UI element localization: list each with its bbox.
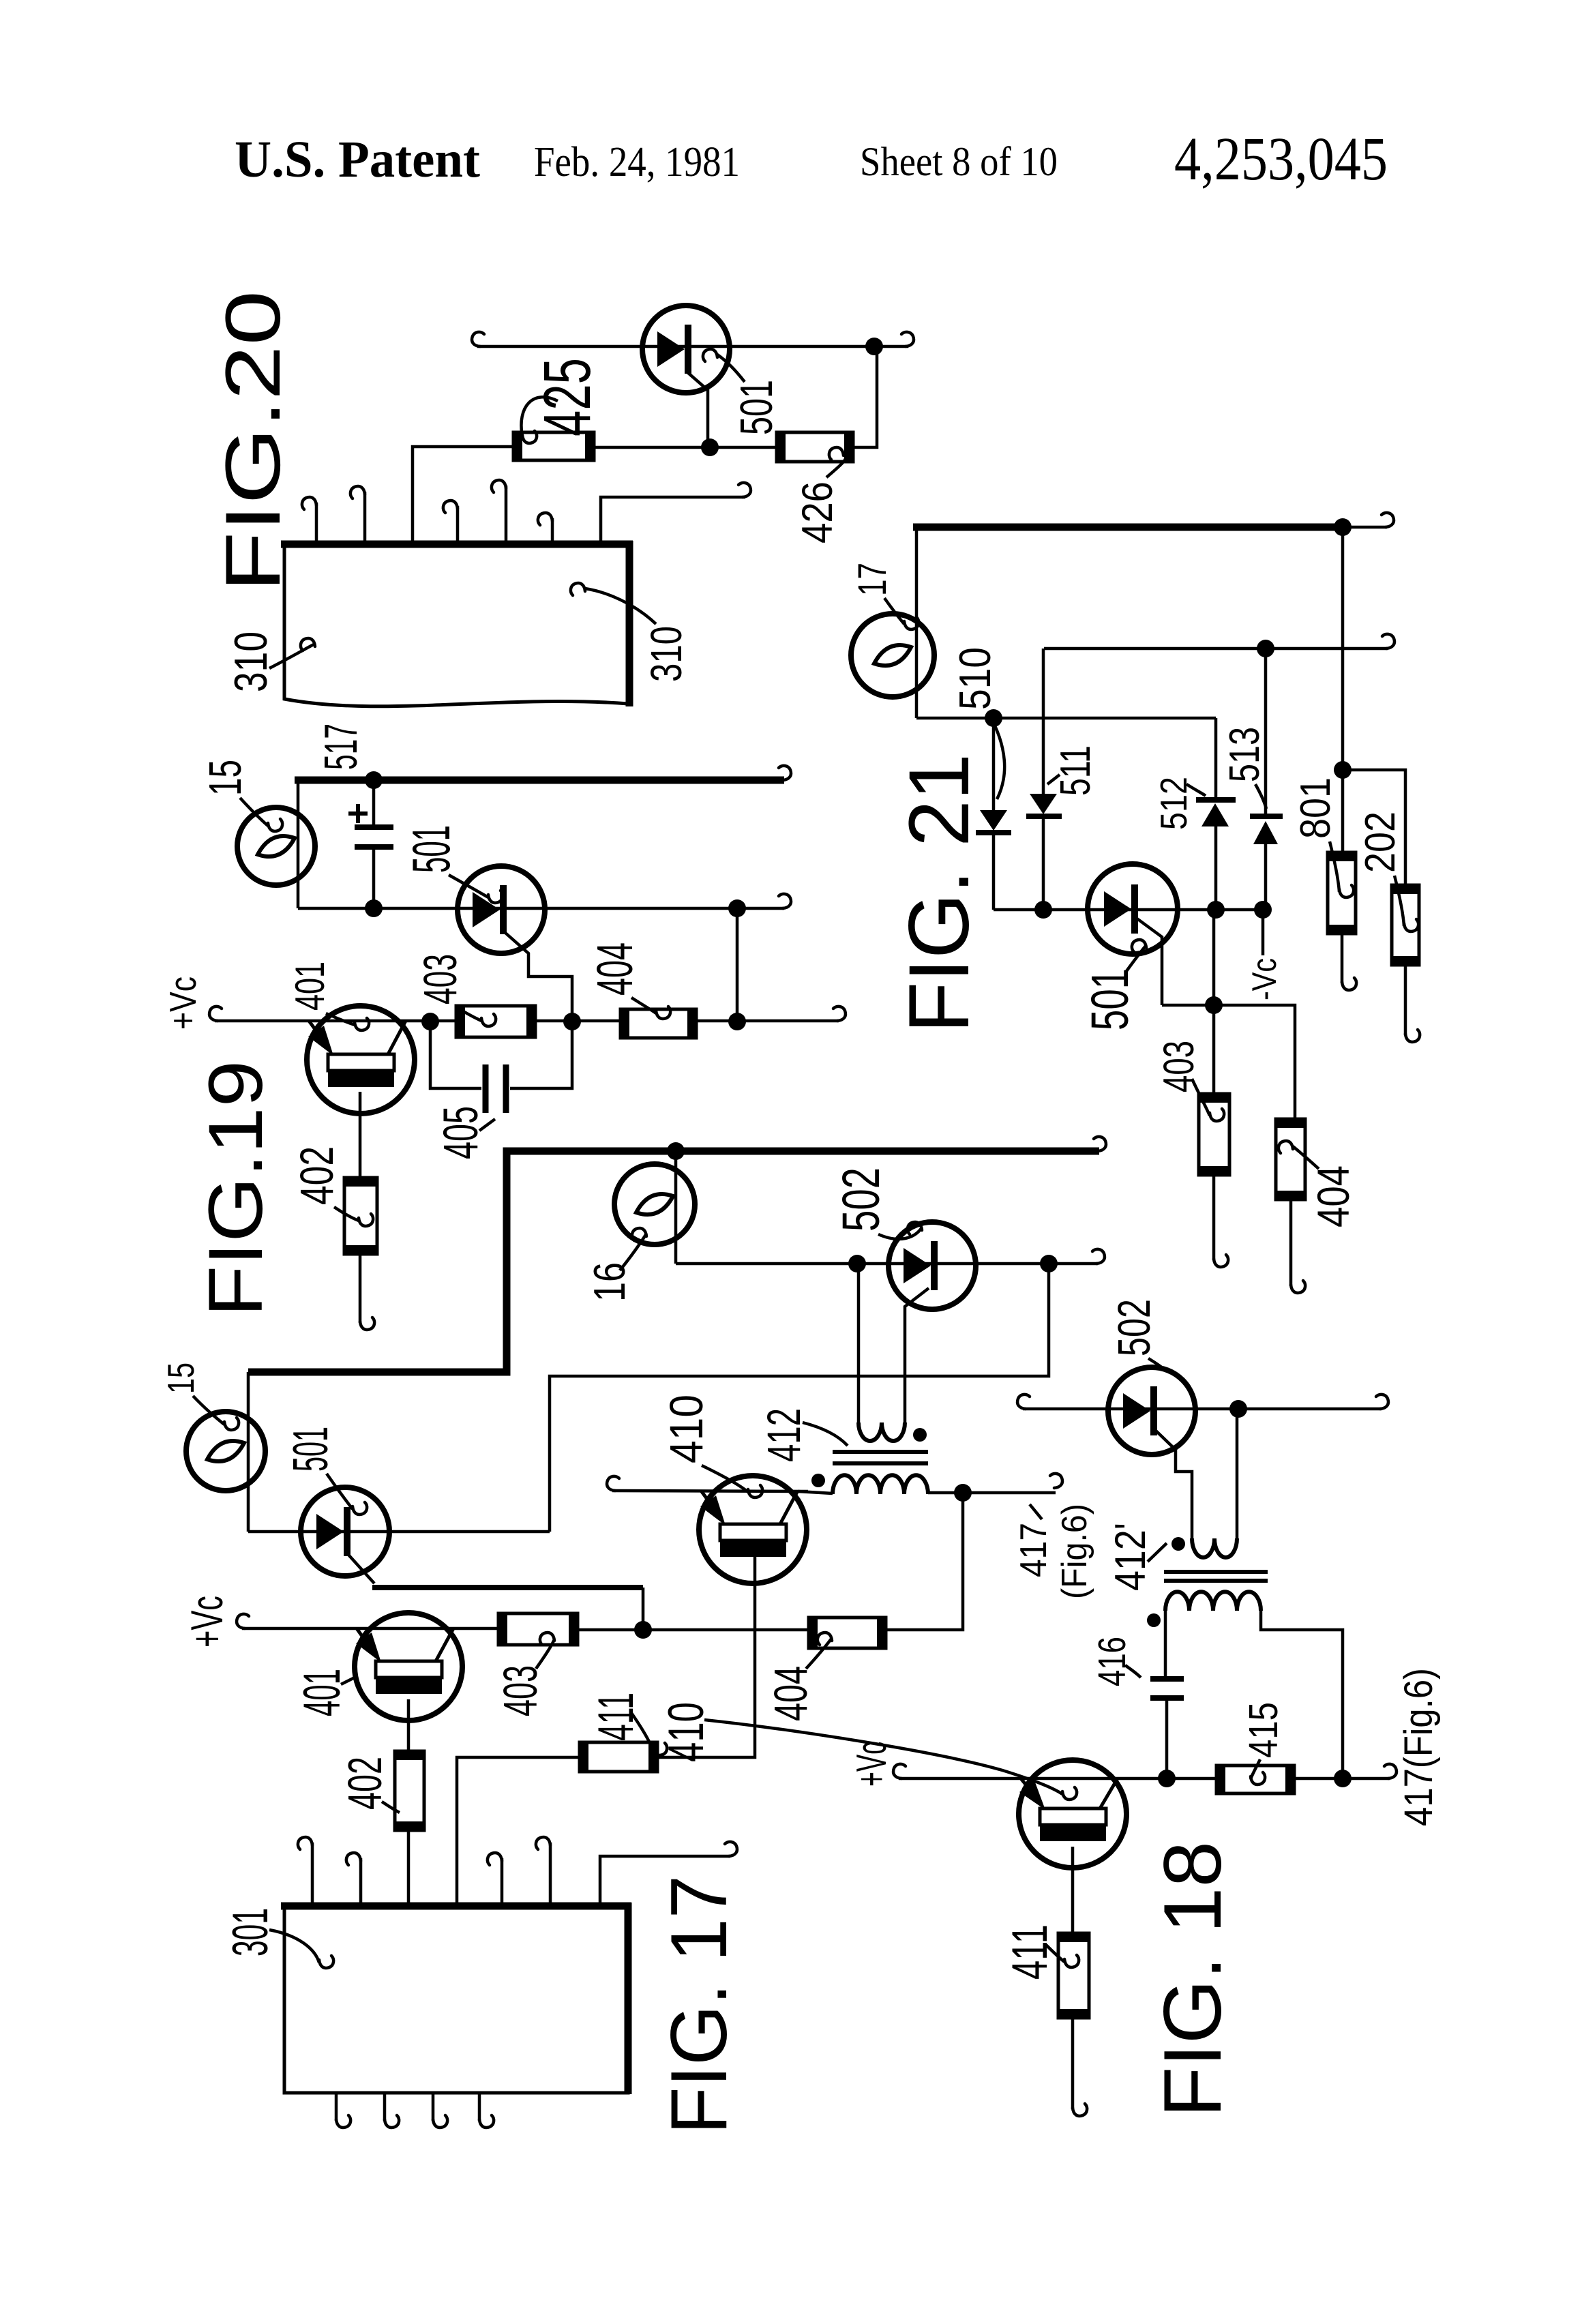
resistor 426 xyxy=(777,432,853,462)
svg-text:15: 15 xyxy=(200,760,251,796)
leader for 411 (FIG.18) xyxy=(1046,1945,1064,1962)
leader for 801 xyxy=(1330,841,1339,892)
capacitor 517 leads xyxy=(372,780,376,827)
pin 6 of 310 xyxy=(551,518,554,543)
pin B of 301 xyxy=(359,1858,363,1906)
thick bus (FIG.17) xyxy=(248,1151,1099,1372)
gate of 501 (FIG.21) xyxy=(1136,918,1162,1005)
transistor 401 (FIG.17) xyxy=(355,1613,462,1720)
emitter terminal wire of 410 (FIG.17) xyxy=(612,1491,808,1491)
main cathode rail (FIG.21) xyxy=(994,908,1264,912)
capacitor 416 bottom lead xyxy=(1165,1698,1169,1778)
thyristor 501 (FIG.21) xyxy=(1088,864,1178,954)
svg-text:-Vc: -Vc xyxy=(1245,958,1283,1000)
lamp 16 vertical wire xyxy=(674,1151,678,1264)
transistor 401 lead to 402 (FIG.17) xyxy=(407,1699,411,1751)
bottom pin 4 of 301 xyxy=(478,2094,481,2121)
svg-text:412': 412' xyxy=(1107,1523,1154,1591)
leader for 404 (FIG.21) xyxy=(1293,1146,1319,1169)
pin 2 of 310 xyxy=(363,492,367,543)
transistor 401 lead to 402 (FIG.19) xyxy=(359,1092,362,1178)
svg-text:301: 301 xyxy=(223,1908,278,1956)
transformer 412 secondary winding xyxy=(833,1475,928,1494)
junction dot 403 right / gate (FIG.19) xyxy=(563,1013,581,1030)
junction dot lamp 16 tap xyxy=(667,1142,685,1160)
wire below 801 xyxy=(1341,934,1344,983)
+Vc rail / 415 rail (FIG.18) xyxy=(899,1777,1217,1781)
junction dot 416 bottom xyxy=(1158,1770,1176,1787)
pin 7 of 310 (wire with terminal) xyxy=(601,497,745,543)
junction dot 517 top xyxy=(365,771,383,789)
leader for 513 xyxy=(1255,784,1266,809)
leader for 501 (FIG.19) xyxy=(449,875,488,897)
svg-text:412: 412 xyxy=(758,1408,810,1462)
svg-text:FIG. 17: FIG. 17 xyxy=(654,1875,743,2134)
gate wire to 404 (FIG.21) xyxy=(1162,1005,1295,1119)
svg-text:401: 401 xyxy=(293,1669,351,1716)
diode rail upper (FIG.21) xyxy=(916,717,1216,720)
leader for 502 (FIG.17) xyxy=(878,1227,922,1239)
junction dot 403 left (FIG.19) xyxy=(421,1013,439,1030)
leader for 512 xyxy=(1186,784,1206,796)
polarity dot secondary 412-prime xyxy=(1147,1613,1161,1627)
wire 426 right to top rail xyxy=(853,346,877,447)
svg-text:410: 410 xyxy=(659,1702,714,1762)
diode 511 xyxy=(1030,794,1057,814)
svg-text:513: 513 xyxy=(1221,727,1268,782)
secondary left lead to capacitor 416 xyxy=(1164,1611,1167,1679)
junction dot 404 right (FIG.19) xyxy=(728,1013,746,1030)
capacitor 405 plates xyxy=(483,1064,489,1113)
svg-text:501: 501 xyxy=(731,380,782,435)
resistor 404 (FIG.19) xyxy=(621,1009,696,1038)
leader for 501 (FIG.17) xyxy=(327,1474,353,1509)
svg-text:417: 417 xyxy=(1012,1523,1054,1577)
pin G of 301 (wire with terminal) xyxy=(600,1856,730,1906)
svg-text:501: 501 xyxy=(401,825,461,873)
leader for 411 (FIG.17) xyxy=(631,1713,653,1750)
leader for 402 (FIG.19) xyxy=(334,1207,359,1221)
resistor 801 xyxy=(1328,852,1356,934)
resistor 402 (FIG.17) xyxy=(395,1751,424,1830)
capacitor 416 plates xyxy=(1150,1676,1184,1682)
thyristor 502 (FIG.17) xyxy=(889,1222,976,1309)
thick top rail (FIG.21) xyxy=(913,524,1343,531)
wire below 411 (FIG.18) xyxy=(1071,2018,1075,2109)
junction dot 513 tap xyxy=(1257,640,1274,657)
primary right lead of 412-prime xyxy=(1236,1409,1239,1538)
thyristor 501 (FIG.19) xyxy=(458,866,545,953)
polarity dot primary 412 xyxy=(913,1428,927,1442)
svg-text:410: 410 xyxy=(660,1395,713,1463)
vertical 801 branch xyxy=(1341,527,1345,852)
lamp 17 vertical wire xyxy=(915,527,919,718)
svg-text:+Vc: +Vc xyxy=(181,1596,232,1648)
thyristor 502 (FIG.18) xyxy=(1108,1367,1195,1455)
capacitor 517 plates xyxy=(355,824,393,830)
leader for 15 (FIG.19) xyxy=(240,798,268,826)
leader for 426 xyxy=(826,454,846,477)
resistor 415 xyxy=(1217,1766,1294,1793)
svg-text:Feb. 24, 1981: Feb. 24, 1981 xyxy=(534,139,740,185)
pin 1 of 310 xyxy=(315,503,318,543)
svg-text:502: 502 xyxy=(1109,1299,1160,1356)
wire below 402 (FIG.19) xyxy=(359,1254,362,1323)
thyristor 501 (FIG.20) xyxy=(642,306,730,393)
wire 404 to transformer (FIG.17) xyxy=(886,1493,963,1630)
transformer 412-prime core xyxy=(1164,1570,1268,1574)
leader for 416 xyxy=(1125,1665,1141,1678)
lamp 15 (FIG.19) xyxy=(237,807,315,885)
svg-text:426: 426 xyxy=(794,481,841,543)
anode rail of 502 (FIG.18) xyxy=(1023,1407,1382,1411)
IC box 310 (FIG.20) xyxy=(284,546,628,706)
junction dot transformer 412 primary tap xyxy=(848,1255,866,1272)
leader for 402 (FIG.17) xyxy=(382,1802,400,1813)
junction dot gate/403 crossing xyxy=(1205,996,1223,1014)
cathode link wire of 501 (FIG.17) xyxy=(550,1264,1049,1532)
resistor 404 (FIG.21) xyxy=(1276,1119,1305,1200)
anode rail (FIG.19) xyxy=(298,907,784,910)
svg-text:404: 404 xyxy=(764,1666,817,1721)
leader for 501 (FIG.20) xyxy=(717,355,745,382)
resistor 404 (FIG.17) xyxy=(809,1618,886,1648)
diode 513 xyxy=(1250,814,1283,819)
wire below 202 xyxy=(1404,965,1407,1035)
junction dot 512 bottom xyxy=(1207,901,1225,919)
svg-text:404: 404 xyxy=(1308,1165,1358,1227)
leader for 511 xyxy=(1047,775,1060,784)
anode rail of 501 (FIG.17) xyxy=(248,1530,550,1534)
diode 510 xyxy=(980,810,1007,831)
transistor 410 (FIG.18) xyxy=(1019,1760,1126,1868)
svg-text:415: 415 xyxy=(1241,1702,1286,1758)
gate of 502 (FIG.18) xyxy=(1155,1430,1192,1538)
transformer 412-prime primary winding xyxy=(1192,1538,1237,1558)
junction dot 513 bottom / -Vc node xyxy=(1254,901,1272,919)
resistor 403 (FIG.19) xyxy=(456,1006,535,1037)
IC box 301 (FIG.17) xyxy=(284,1906,628,2093)
vertical link 404 right (FIG.19) xyxy=(736,908,739,1022)
leader for 425 xyxy=(521,397,558,436)
+Vc rail (FIG.17) xyxy=(242,1627,498,1630)
svg-text:401: 401 xyxy=(287,962,333,1011)
lamp 16 xyxy=(614,1164,695,1245)
resistor 402 (FIG.19) xyxy=(344,1178,377,1254)
svg-text:310: 310 xyxy=(225,631,277,692)
anode rail of 502 (FIG.17) xyxy=(676,1262,1098,1266)
leader for 405 xyxy=(479,1119,495,1131)
svg-text:416: 416 xyxy=(1090,1637,1134,1686)
svg-text:417(Fig.6): 417(Fig.6) xyxy=(1397,1668,1441,1826)
resistor 403 (FIG.17) xyxy=(498,1613,578,1645)
junction dot 502 cathode (FIG.18) xyxy=(1229,1400,1247,1418)
gate of 502 (FIG.17) xyxy=(905,1288,929,1422)
bottom pin 3 of 301 xyxy=(432,2094,435,2121)
upper-right rail (FIG.21) xyxy=(1044,647,1388,651)
resistor 411 (FIG.17) xyxy=(580,1742,657,1772)
top rail (FIG.20) xyxy=(477,345,908,348)
bottom pin 2 of 301 xyxy=(383,2094,387,2121)
capacitor 405 wires xyxy=(430,1022,481,1088)
branch wire to 202 xyxy=(1343,770,1405,885)
junction dot cathode/404 link xyxy=(728,899,746,917)
svg-text:517: 517 xyxy=(315,724,367,770)
svg-text:15: 15 xyxy=(160,1362,202,1394)
gate of 501 (FIG.19) xyxy=(505,932,572,1022)
diode 510 top lead xyxy=(992,718,996,810)
leader for 401 (FIG.17) xyxy=(341,1676,357,1684)
-Vc terminal stub xyxy=(1262,910,1265,955)
wire 425 to 426 xyxy=(594,446,777,449)
resistor 425 xyxy=(513,432,594,460)
svg-text:202: 202 xyxy=(1357,811,1404,873)
svg-text:404: 404 xyxy=(586,942,643,996)
gate of 501 (FIG.20) xyxy=(687,372,708,447)
leader for 415 xyxy=(1251,1759,1260,1779)
svg-text:403: 403 xyxy=(414,954,466,1004)
transformer 412-prime secondary winding xyxy=(1165,1592,1261,1611)
lamp 15 (FIG.17) xyxy=(186,1412,265,1491)
diode 510 bottom lead xyxy=(992,833,996,910)
svg-text:17: 17 xyxy=(850,563,895,596)
svg-text:511: 511 xyxy=(1052,745,1099,796)
diode 511 bottom lead xyxy=(1042,816,1045,910)
junction dot gate node (FIG.17) xyxy=(634,1621,652,1639)
leader for 403 (FIG.17) xyxy=(536,1639,554,1669)
junction dot secondary/404 (FIG.17) xyxy=(954,1484,972,1502)
svg-text:Sheet 8 of 10: Sheet 8 of 10 xyxy=(860,139,1058,184)
collector wire of 410 to transformer 412 xyxy=(798,1491,833,1493)
lamp 15 vertical wire (FIG.17) xyxy=(247,1372,250,1532)
gate of 501 (FIG.17) xyxy=(348,1555,374,1583)
svg-text:+Vc: +Vc xyxy=(848,1742,895,1787)
pin 4 of 310 xyxy=(456,506,460,543)
pin F of 301 xyxy=(549,1843,552,1906)
svg-text:FIG. 21: FIG. 21 xyxy=(892,754,987,1033)
polarity dot primary 412-prime xyxy=(1171,1537,1185,1551)
leader for 404 (FIG.17) xyxy=(806,1638,832,1669)
svg-text:FIG. 18: FIG. 18 xyxy=(1147,1841,1238,2117)
leader for 510 xyxy=(988,713,1004,799)
vertical 403 branch (FIG.21) xyxy=(1212,910,1216,1094)
leader for 15 (FIG.17) xyxy=(193,1396,224,1425)
diode 512 top lead xyxy=(1214,718,1218,800)
polarity dot secondary 412 xyxy=(811,1474,825,1487)
diode 513 top lead xyxy=(1264,649,1268,816)
leader for 404 (FIG.19) xyxy=(631,998,656,1013)
transformer 412 primary winding xyxy=(859,1422,905,1441)
resistor 202 xyxy=(1392,885,1419,965)
wire below 403 (FIG.21) xyxy=(1212,1175,1216,1260)
bottom pin 1 of 301 xyxy=(335,2094,338,2121)
diode 512 bottom lead xyxy=(1214,826,1218,910)
junction dot 511 bottom xyxy=(1034,901,1052,919)
svg-text:403: 403 xyxy=(494,1665,547,1716)
junction dot 517 bottom xyxy=(365,899,383,917)
resistor 411 wire left (FIG.17) xyxy=(457,1757,580,1905)
junction dot 202 tap xyxy=(1334,761,1352,779)
leader for 412-prime xyxy=(1148,1543,1167,1562)
left vertical wire (FIG.19) xyxy=(297,780,300,908)
transistor 401 (FIG.19) xyxy=(307,1006,415,1114)
lamp 17 (FIG.21) xyxy=(851,614,934,697)
junction dot (gate of 501 / resistor net) xyxy=(701,438,719,456)
plus sign of 517 xyxy=(348,811,368,816)
transistor 410 lead to 411 (FIG.18) xyxy=(1071,1847,1075,1933)
svg-text:801: 801 xyxy=(1292,777,1339,839)
wire below 404 (FIG.21) xyxy=(1289,1200,1293,1286)
svg-text:501: 501 xyxy=(1081,968,1139,1030)
leader for 501 (FIG.21) xyxy=(1126,945,1146,971)
wire 411 to transistor 410 (FIG.17) xyxy=(657,1550,755,1757)
leader for 403 (FIG.19) xyxy=(456,1007,481,1021)
junction dot top rail / 801 branch xyxy=(1334,518,1352,536)
leader for 17 xyxy=(884,598,904,624)
leader for 202 xyxy=(1394,876,1404,926)
pin 5 of 310 xyxy=(505,486,508,543)
svg-text:510: 510 xyxy=(950,647,1000,710)
diode 511 top lead xyxy=(1042,649,1045,794)
leader for 310 right xyxy=(585,589,656,624)
svg-text:402: 402 xyxy=(290,1146,343,1205)
leader for 403 (FIG.21) xyxy=(1192,1079,1210,1116)
leader for 412 xyxy=(803,1422,848,1446)
leader for 502 (FIG.18) xyxy=(1148,1358,1164,1369)
resistor 403 (FIG.21) xyxy=(1199,1094,1229,1175)
svg-text:4,253,045: 4,253,045 xyxy=(1174,125,1388,193)
junction dot 502 cathode link xyxy=(1040,1255,1058,1272)
leader for 410 (FIG.17) xyxy=(702,1465,748,1492)
svg-text:501: 501 xyxy=(284,1427,338,1472)
svg-text:+Vc: +Vc xyxy=(162,977,204,1030)
junction dot 415 right xyxy=(1334,1770,1352,1787)
+Vc wire / node A rail (FIG.19) xyxy=(215,1019,456,1023)
thyristor 501 (FIG.17) xyxy=(301,1487,389,1576)
transformer 412 core xyxy=(833,1450,928,1454)
leader for 410 (FIG.18) xyxy=(704,1720,1062,1794)
svg-text:502: 502 xyxy=(832,1167,891,1232)
pin E of 301 xyxy=(501,1858,504,1906)
junction dot 510 tap xyxy=(985,709,1002,727)
diode 512 xyxy=(1196,797,1236,803)
svg-text:310: 310 xyxy=(642,626,691,682)
svg-text:16: 16 xyxy=(584,1262,634,1302)
leader for 310 left xyxy=(269,644,315,668)
leader for 401 (FIG.19) xyxy=(326,1013,355,1025)
pin A of 301 xyxy=(311,1843,314,1906)
diode 513 bottom lead xyxy=(1264,844,1268,910)
svg-text:U.S. Patent: U.S. Patent xyxy=(235,131,480,188)
junction dot on top rail xyxy=(865,338,883,355)
wire 402 to box 301 xyxy=(407,1830,411,1905)
pin 3 of 310 (wire to resistor 425) xyxy=(413,447,513,543)
resistor 411 (FIG.18) xyxy=(1058,1933,1089,2018)
svg-text:(Fig.6): (Fig.6) xyxy=(1055,1504,1094,1599)
thick top rail (FIG.19) xyxy=(295,777,784,784)
leader for 16 xyxy=(620,1234,646,1270)
svg-text:405: 405 xyxy=(434,1106,488,1159)
primary left lead of 412 xyxy=(857,1264,861,1422)
leader for 301 xyxy=(269,1930,319,1963)
transistor 410 (FIG.17) xyxy=(699,1476,807,1583)
svg-text:FIG.19: FIG.19 xyxy=(193,1060,278,1317)
secondary right wire of 412 xyxy=(928,1491,1056,1495)
svg-text:411: 411 xyxy=(1002,1924,1058,1980)
secondary right wire of 412-prime xyxy=(1261,1611,1343,1778)
